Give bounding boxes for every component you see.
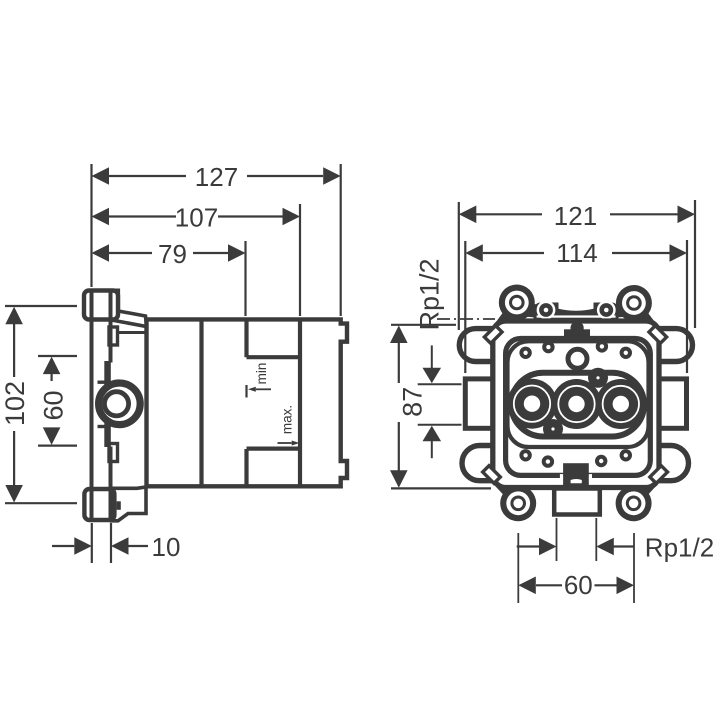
label Rp1/2 top: [415, 258, 445, 330]
plate bump upper: [109, 327, 118, 345]
corner boss BR: [616, 485, 652, 521]
svg-text:79: 79: [158, 239, 187, 269]
saddle base: [534, 303, 619, 323]
chamfer diamond TL: [484, 326, 502, 344]
plate hole 7: [595, 455, 607, 467]
cartridge stadium: [511, 373, 644, 437]
upper ear stadium: [459, 329, 692, 362]
plate left vertical: [90, 289, 94, 521]
plate hole 2: [542, 341, 554, 353]
saddle wedge left: [519, 303, 542, 319]
plate hole 1: [519, 347, 531, 359]
svg-text:121: 121: [554, 201, 597, 231]
svg-text:87: 87: [398, 387, 428, 417]
chamfer diamond TR: [649, 326, 667, 344]
centerline dash-dot: [437, 318, 495, 320]
corner boss BL: [500, 485, 536, 521]
dimension 127: [92, 164, 341, 316]
dimension 79: [92, 241, 246, 316]
top ring: [568, 349, 587, 368]
dimension 87: [390, 325, 491, 489]
svg-text:max.: max.: [280, 405, 295, 434]
dimension 114: [465, 240, 687, 373]
svg-text:114: 114: [556, 238, 597, 268]
max annotation arrow: [278, 441, 300, 446]
inner vertical x=300 (max plane): [298, 319, 302, 486]
lower ear stadium: [462, 446, 689, 481]
big circle left: [507, 379, 557, 429]
svg-text:60: 60: [564, 570, 593, 600]
recess horizontal top: [247, 355, 301, 359]
bottom tab black: [563, 463, 589, 487]
plate hole 6: [542, 455, 554, 467]
svg-text:60: 60: [39, 390, 69, 420]
dimension 121: [459, 200, 695, 330]
dimension 60 bottom: [518, 577, 634, 595]
recess horizontal bottom: [247, 447, 301, 451]
plate bump lower: [109, 444, 118, 462]
boss struts: [495, 303, 658, 504]
inner vertical x=246 segments (min plane): [244, 319, 248, 486]
dimension 60 left: [38, 356, 77, 446]
svg-text:Rp1/2: Rp1/2: [415, 258, 445, 330]
dimension 10: [52, 523, 148, 563]
bottom mounting tab: [84, 489, 114, 520]
label 87: [398, 387, 428, 417]
saddle ring right: [597, 301, 616, 320]
svg-text:107: 107: [175, 203, 218, 233]
satellite bottom: [543, 419, 563, 439]
flange circle: [99, 383, 141, 425]
outer outline: [493, 321, 659, 488]
label max: [280, 405, 295, 434]
svg-text:min: min: [254, 363, 269, 385]
mid side tabs: [465, 379, 686, 428]
svg-text:10: 10: [152, 532, 181, 562]
plate hole 4: [620, 347, 632, 359]
saddle wedge right: [611, 303, 634, 319]
bottom ext lines: [518, 518, 634, 603]
plate right vertical: [109, 289, 113, 363]
label 102: [0, 381, 30, 426]
label 60 left: [39, 390, 69, 420]
plate hole 5: [519, 449, 531, 461]
saddle sliver white: [537, 315, 616, 317]
label min: [254, 363, 269, 385]
corner boss TL: [499, 285, 535, 321]
min annotation arrow: [247, 385, 272, 398]
bottom bracket lump: [117, 501, 121, 510]
chamfer diamond BR: [650, 466, 668, 484]
svg-text:Rp1/2: Rp1/2: [645, 533, 714, 563]
chamfer diamond BL: [483, 466, 501, 484]
top bracket arm: [112, 290, 147, 332]
bottom port: [554, 489, 600, 515]
svg-text:127: 127: [195, 162, 238, 192]
inner vertical x=201: [199, 319, 203, 486]
inner plate: [506, 339, 651, 476]
plate hole 8: [620, 449, 632, 461]
dimension 107: [92, 204, 301, 316]
big circle right: [596, 379, 646, 429]
circle jog bar: [104, 361, 111, 447]
dimension 102: [5, 306, 77, 503]
big circle middle: [552, 379, 602, 429]
top tab black: [564, 323, 590, 345]
corner boss TR: [616, 285, 652, 321]
saddle dip white: [559, 299, 594, 311]
main body box with right clips: [147, 319, 348, 486]
top mounting tab: [84, 291, 118, 320]
bottom bracket arm: [112, 487, 147, 521]
saddle ring left: [537, 301, 556, 320]
dimension Rp1/2 bottom: [517, 538, 634, 556]
port bore leader arrows: [418, 345, 462, 458]
satellite top: [588, 368, 608, 388]
plate hole 3: [596, 340, 608, 352]
funnel ring: [508, 341, 649, 447]
svg-text:102: 102: [0, 381, 30, 426]
